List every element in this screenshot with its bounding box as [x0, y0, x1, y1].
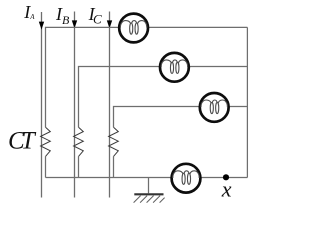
CT secondary winding A (zigzag)	[41, 127, 51, 156]
CT secondary B top wire	[79, 67, 161, 128]
CT secondary B bottom wire	[78, 156, 80, 177]
CT secondary winding C (zigzag)	[109, 127, 119, 156]
svg-text:CT: CT	[8, 128, 37, 155]
ground stub wire	[148, 178, 150, 194]
svg-text:IA: IA	[23, 2, 35, 22]
conductor A current arrowhead	[39, 22, 44, 30]
instrument coil 2	[160, 53, 189, 82]
conductor C wire	[109, 12, 111, 198]
ground hatch strokes	[134, 196, 165, 203]
CT secondary A top wire	[46, 27, 120, 127]
CT secondary C top wire	[114, 107, 201, 128]
svg-text:x: x	[221, 176, 232, 201]
right bus wire	[246, 27, 248, 177]
conductor B current arrowhead	[72, 20, 77, 28]
CT secondary C bottom wire	[113, 156, 115, 177]
wire: instrument 1 output to right bus	[148, 26, 247, 28]
svg-text:IB: IB	[55, 4, 70, 27]
instrument coil 3	[200, 93, 229, 122]
conductor C current arrowhead	[107, 20, 112, 28]
CT secondary winding B (zigzag)	[74, 127, 84, 156]
instrument coil 4	[172, 164, 201, 193]
conductor A wire	[41, 12, 43, 198]
node x junction dot	[223, 174, 229, 180]
svg-text:IC: IC	[88, 4, 102, 27]
wire: instrument 3 output to right bus	[228, 106, 247, 108]
bottom bus wire	[46, 177, 173, 179]
wire: instrument 2 output to right bus	[189, 66, 248, 68]
instrument coil 1	[119, 14, 148, 43]
conductor B wire	[74, 12, 76, 198]
ground symbol bar	[134, 193, 163, 195]
CT secondary A bottom wire	[45, 156, 47, 177]
bottom right wire to node x	[200, 177, 247, 179]
